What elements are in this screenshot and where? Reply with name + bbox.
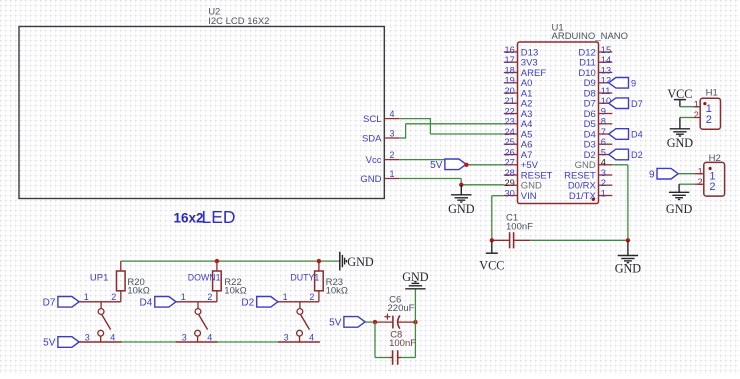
netflag 5V on +5V wire: [430, 159, 466, 171]
U1 pin D1/TX marker dot: [592, 198, 595, 201]
ground symbol below H2: [666, 192, 693, 216]
U1 pin 12 D9: [584, 76, 613, 90]
op-amp U1 ARDUINO_NANO body: [518, 42, 599, 204]
netflag 5V bottom left: [43, 337, 79, 349]
U1 pin 2 D0/RX: [568, 178, 612, 192]
U1 pin 10 D7: [584, 96, 613, 110]
junction VCC/C1: [490, 238, 494, 242]
wire GND rail above resistors: [121, 260, 340, 262]
svg-text:I2C LCD 16X2: I2C LCD 16X2: [208, 16, 269, 27]
U1 pin 7 D4: [584, 127, 613, 141]
netflag D7 at U1 pin D7: [609, 98, 643, 109]
svg-text:D7: D7: [43, 297, 56, 308]
H1 pin2: [694, 110, 712, 126]
U1 pin 4 GND: [575, 158, 613, 172]
LCD module U2 body: [19, 27, 384, 199]
wire C1 to GND rail: [530, 239, 628, 241]
LCD pin 4 SCL: [363, 109, 399, 125]
resistor R20: [117, 261, 126, 302]
wire 9 to H2 pin1: [678, 173, 694, 175]
capacitor C1: [492, 232, 531, 248]
resistor R23: [315, 261, 324, 302]
svg-text:1: 1: [698, 166, 703, 176]
svg-text:9: 9: [631, 78, 636, 88]
svg-text:SCL: SCL: [363, 114, 381, 125]
C8 value label 100nF: [389, 338, 416, 349]
svg-text:H2: H2: [709, 153, 721, 164]
svg-text:8: 8: [601, 117, 606, 127]
wire U1 VIN to VCC junction: [492, 196, 504, 241]
svg-text:D4: D4: [631, 130, 643, 140]
svg-text:5V: 5V: [329, 318, 342, 329]
svg-text:GND: GND: [667, 136, 694, 150]
svg-text:11: 11: [601, 86, 611, 96]
pushbutton UP1: [79, 273, 122, 343]
wire junction up to ground: [414, 289, 416, 322]
svg-text:3: 3: [182, 332, 187, 342]
svg-text:6: 6: [601, 137, 606, 147]
svg-text:D7: D7: [631, 99, 643, 109]
svg-text:2: 2: [111, 292, 116, 302]
svg-text:VIN: VIN: [521, 191, 537, 202]
C6 designator label: [389, 294, 401, 305]
svg-text:17: 17: [504, 55, 514, 65]
H1 pin1 marker dot: [703, 102, 706, 105]
ground symbol below right junction: [615, 240, 642, 275]
svg-text:28: 28: [504, 168, 514, 178]
wire GND net (LCD pin1 to U1 GND pin29): [399, 179, 504, 185]
ground symbol below H1: [667, 129, 694, 151]
svg-text:Vcc: Vcc: [366, 155, 382, 166]
svg-text:2: 2: [709, 181, 715, 193]
svg-text:LED: LED: [202, 207, 236, 227]
resistor R22: [213, 261, 222, 302]
svg-text:GND: GND: [666, 202, 693, 216]
netflag D2: [241, 297, 277, 309]
wire SCL net (LCD pin4 to U1 A5): [399, 118, 504, 134]
junction C6 right: [413, 320, 417, 324]
C6 value label 220uF: [388, 303, 415, 314]
svg-text:19: 19: [504, 76, 514, 86]
U1 pin 13 D10: [578, 65, 612, 79]
svg-text:30: 30: [504, 188, 514, 198]
U1 pin 21 A2: [504, 96, 533, 110]
pushbutton DOWN1: [176, 273, 221, 343]
svg-text:23: 23: [504, 117, 514, 127]
svg-text:18: 18: [504, 65, 514, 75]
U2 designator label: [208, 6, 220, 17]
U1 pin 25 A6: [504, 137, 533, 151]
junction GND rail right: [626, 238, 630, 242]
U1 designator label: [552, 23, 564, 34]
svg-text:UP1: UP1: [90, 273, 108, 284]
svg-text:14: 14: [601, 55, 611, 65]
R23 designator label: [326, 277, 343, 288]
svg-text:GND: GND: [448, 202, 475, 216]
svg-text:10kΩ: 10kΩ: [224, 286, 246, 297]
svg-text:2: 2: [390, 150, 395, 160]
junction on GND wire: [459, 183, 463, 187]
netflag D2 at U1 pin D2: [609, 149, 643, 160]
U1 pin 6 D3: [584, 137, 613, 151]
svg-text:D2: D2: [241, 297, 254, 308]
header H2 body: [704, 162, 725, 196]
U1 pin 5 D2: [584, 147, 613, 161]
svg-text:10kΩ: 10kΩ: [127, 286, 149, 297]
C1 value label 100nF: [506, 222, 533, 233]
svg-text:220uF: 220uF: [388, 303, 415, 314]
svg-text:GND: GND: [360, 174, 381, 185]
U1 pin 29 GND: [504, 178, 542, 192]
svg-text:20: 20: [504, 86, 514, 96]
U1 pin 20 A1: [504, 86, 533, 100]
svg-text:D2: D2: [631, 150, 643, 160]
netflag D7: [43, 297, 79, 309]
U1 pin 15 D12: [578, 45, 612, 59]
U1 pin 30 VIN: [504, 188, 537, 202]
wire C8 branch left: [375, 322, 390, 357]
ground symbol above C6 (inverted): [402, 270, 429, 289]
R23 value label 10k: [326, 286, 348, 297]
R22 designator label: [224, 277, 241, 288]
H2 pin1 marker dot: [709, 167, 712, 170]
U2 value label I2C LCD 16X2: [208, 16, 269, 27]
wire U1 GND pin4 to ground rail: [612, 165, 628, 241]
svg-text:2: 2: [207, 292, 212, 302]
LCD caption 16x2LED: [174, 207, 236, 227]
svg-text:2: 2: [706, 114, 712, 126]
svg-text:H1: H1: [706, 88, 718, 99]
U1 pin 28 RESET: [504, 168, 553, 182]
netflag 9 at U1 pin D9: [609, 78, 636, 89]
netflag D4: [140, 297, 176, 309]
C1 designator label: [506, 212, 518, 223]
U1 pin 11 D8: [584, 86, 613, 100]
svg-text:26: 26: [504, 147, 514, 157]
svg-text:16x2: 16x2: [174, 211, 204, 226]
svg-text:DUTY1: DUTY1: [290, 273, 319, 283]
netflag 5V mid: [329, 317, 365, 329]
capacitor C6 (polarized): [375, 314, 415, 329]
U1 pin 18 AREF: [504, 65, 547, 79]
svg-text:2: 2: [601, 178, 606, 188]
wire 5V bottom rail: [121, 341, 278, 343]
svg-text:SDA: SDA: [362, 133, 382, 144]
svg-text:27: 27: [504, 158, 514, 168]
junction R23 top: [317, 259, 321, 263]
svg-text:10kΩ: 10kΩ: [326, 286, 348, 297]
ground symbol below GND junction: [448, 185, 475, 216]
svg-text:3: 3: [284, 332, 289, 342]
H1 designator label: [706, 88, 718, 99]
wire SDA net (LCD pin3 to U1 A4): [399, 124, 504, 139]
svg-text:25: 25: [504, 137, 514, 147]
svg-text:21: 21: [504, 96, 514, 106]
svg-text:2: 2: [698, 177, 703, 187]
svg-text:9: 9: [649, 169, 655, 180]
capacitor C8: [390, 350, 402, 365]
svg-text:GND: GND: [402, 270, 429, 284]
wire H2 pin2 to ground: [679, 184, 694, 192]
LCD pin 2 Vcc: [366, 150, 400, 166]
svg-text:4: 4: [309, 332, 314, 342]
junction C6 left: [373, 320, 377, 324]
svg-text:1: 1: [694, 99, 699, 109]
svg-text:4: 4: [390, 109, 395, 119]
junction at 5V netflag: [464, 163, 468, 167]
U1 pin 8 D5: [584, 117, 613, 131]
svg-text:1: 1: [390, 169, 395, 179]
svg-text:22: 22: [504, 106, 514, 116]
svg-text:16: 16: [504, 45, 514, 55]
ground symbol right of rail (rotated): [340, 252, 374, 271]
svg-text:5V: 5V: [430, 160, 443, 171]
H2 designator label: [709, 153, 721, 164]
svg-text:3: 3: [601, 168, 606, 178]
U1 pin 26 A7: [504, 147, 533, 161]
power symbol VCC above H1: [667, 87, 692, 101]
svg-text:GND: GND: [347, 255, 374, 269]
svg-text:100nF: 100nF: [389, 338, 416, 349]
svg-text:D4: D4: [140, 297, 153, 308]
U1 pin 3 RESET: [564, 168, 612, 182]
wire Vcc/+5V net (LCD pin2 to U1 +5V): [399, 160, 504, 165]
svg-text:9: 9: [601, 106, 606, 116]
svg-text:5V: 5V: [43, 338, 56, 349]
svg-text:29: 29: [504, 178, 514, 188]
svg-text:1: 1: [283, 292, 288, 302]
U1 pin 9 D6: [584, 106, 613, 120]
junction R22 top: [215, 259, 219, 263]
svg-text:VCC: VCC: [667, 87, 692, 101]
netflag D4 at U1 pin D4: [609, 129, 643, 140]
LCD pin 3 SDA: [362, 128, 399, 144]
svg-text:DOWN1: DOWN1: [188, 273, 221, 283]
svg-text:4: 4: [601, 158, 606, 168]
svg-text:3: 3: [390, 128, 395, 138]
svg-text:5: 5: [601, 147, 606, 157]
svg-text:2: 2: [694, 110, 699, 120]
power symbol VCC below C1 left junction: [479, 240, 504, 272]
svg-text:ARDUINO_NANO: ARDUINO_NANO: [552, 31, 629, 42]
svg-text:VCC: VCC: [479, 258, 504, 272]
U1 pin 1 D1/TX: [569, 188, 612, 202]
svg-text:4: 4: [207, 332, 212, 342]
U1 pin 14 D11: [579, 55, 612, 69]
header H1 body: [700, 98, 720, 129]
R20 value label 10k: [127, 286, 149, 297]
R20 designator label: [127, 277, 144, 288]
U1 pin 22 A3: [504, 106, 533, 120]
wire VCC to H1 pin1: [680, 100, 694, 107]
svg-text:15: 15: [601, 45, 611, 55]
svg-text:100nF: 100nF: [506, 222, 533, 233]
LCD pin 1 GND: [360, 169, 399, 185]
svg-text:7: 7: [601, 127, 606, 137]
svg-text:4: 4: [110, 332, 115, 342]
H1 pin1: [694, 99, 712, 115]
svg-text:1: 1: [181, 292, 186, 302]
svg-text:1: 1: [601, 188, 606, 198]
U1 pin 16 D13: [504, 45, 538, 59]
wire C8 branch right: [401, 322, 415, 357]
U1 pin 17 3V3: [504, 55, 538, 69]
C8 designator label: [390, 329, 402, 340]
netflag 9 at H2: [649, 168, 678, 180]
wire H1 pin2 to ground: [680, 118, 694, 129]
U1 pin 23 A4: [504, 117, 533, 131]
svg-text:3: 3: [85, 332, 90, 342]
H2 pin2: [694, 177, 715, 193]
U1 pin 24 A5: [504, 127, 533, 141]
U1 pin 27 +5V: [504, 158, 539, 172]
svg-text:24: 24: [504, 127, 514, 137]
svg-text:1: 1: [84, 292, 89, 302]
R22 value label 10k: [224, 286, 246, 297]
pushbutton DUTY1: [278, 273, 320, 343]
svg-text:13: 13: [601, 65, 611, 75]
svg-text:GND: GND: [615, 262, 642, 276]
svg-text:2: 2: [309, 292, 314, 302]
U1 value label ARDUINO_NANO: [552, 31, 629, 42]
U1 pin 19 A0: [504, 76, 533, 90]
H2 pin1: [694, 166, 715, 182]
wire 5V to C6: [365, 321, 375, 323]
